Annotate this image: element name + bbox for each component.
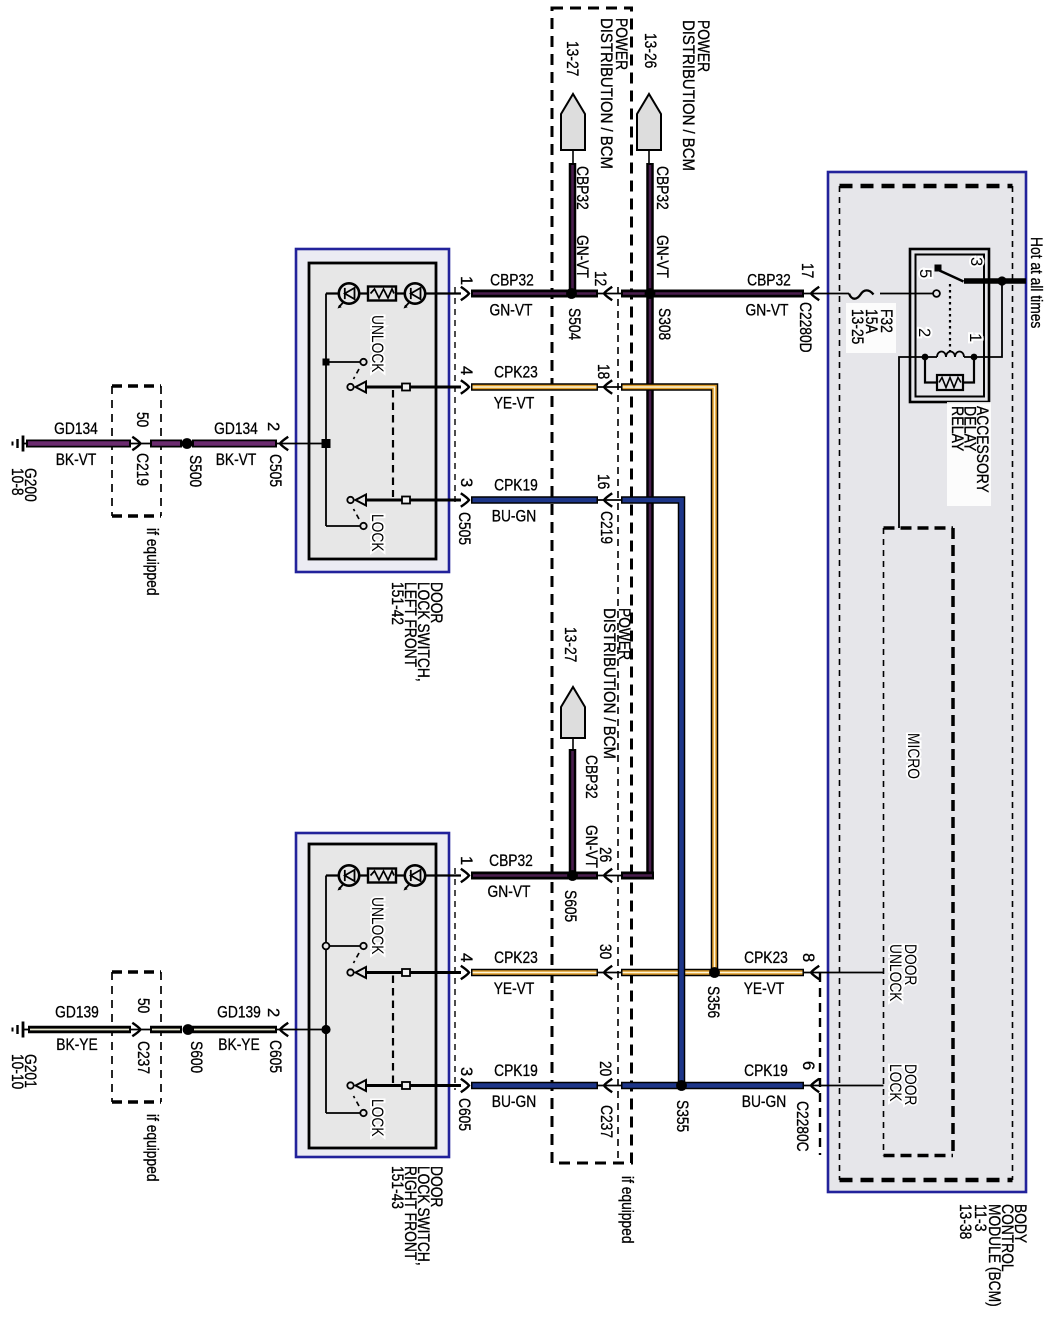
wire GD139 S600 to C605: [192, 1026, 277, 1034]
svg-text:YE-VT: YE-VT: [494, 980, 535, 998]
connector C605 pin 4 arrow: [461, 966, 469, 980]
svg-text:3: 3: [967, 257, 985, 266]
wire CBP32 pentagon 13-26 through S308 to elbow: [646, 163, 654, 876]
svg-text:CBP32: CBP32: [490, 272, 534, 290]
connector C237 pin 30 arrow: [604, 966, 612, 980]
wire GD134 C219 to S500: [150, 440, 182, 448]
wire at connector 12: [596, 293, 624, 295]
svg-text:C505: C505: [266, 454, 284, 487]
svg-text:DISTRIBUTION / BCM: DISTRIBUTION / BCM: [679, 20, 697, 171]
node S308: [645, 288, 656, 299]
svg-text:13-26: 13-26: [641, 33, 659, 68]
connector C2280D pin 17 arrow: [811, 287, 819, 301]
svg-text:S308: S308: [655, 308, 673, 340]
svg-text:50: 50: [134, 998, 152, 1013]
C237 if-equipped dashed box: [112, 970, 161, 973]
svg-text:13-27: 13-27: [561, 627, 579, 662]
svg-text:BK-YE: BK-YE: [56, 1036, 97, 1054]
connector C2280C pin 6 arrow: [811, 1079, 819, 1093]
svg-text:CBP32: CBP32: [573, 166, 591, 210]
relay resistor parallel: [925, 357, 937, 383]
wire CBP32 pentagon 13-27 to S504: [569, 163, 577, 293]
svg-text:S504: S504: [565, 308, 583, 340]
ground G200: [13, 436, 24, 452]
svg-text:S605: S605: [561, 890, 579, 922]
wire CPK19 switch2 pin3 to arrow20: [471, 1082, 598, 1090]
wire at connector 16 C219: [596, 499, 624, 501]
wire at connector C237 pin 50: [128, 1029, 152, 1031]
unlock moving contact switch2: [347, 969, 353, 975]
svg-text:18: 18: [594, 364, 612, 379]
wire junction to relay coil pin1: [974, 281, 1002, 357]
svg-text:RELAY: RELAY: [948, 406, 966, 451]
mechanical link switch1: [392, 390, 394, 497]
wire GD139 ground to C237: [28, 1026, 131, 1034]
svg-text:DISTRIBUTION / BCM: DISTRIBUTION / BCM: [597, 18, 615, 169]
svg-text:10-8: 10-8: [8, 468, 26, 496]
svg-text:CPK19: CPK19: [494, 1062, 538, 1080]
svg-text:GD134: GD134: [54, 420, 98, 438]
svg-text:2: 2: [264, 1008, 282, 1017]
lock moving contact switch2: [347, 1082, 353, 1088]
svg-text:4: 4: [457, 953, 475, 962]
connector C237 pin 26 arrow: [604, 869, 612, 883]
svg-text:13-25: 13-25: [848, 309, 866, 344]
wire CBP32 bus arrow12 to C2280D: [621, 290, 804, 298]
svg-text:CPK19: CPK19: [744, 1062, 788, 1080]
svg-text:C237: C237: [597, 1105, 615, 1138]
wire CPK23 switch2 pin4 to arrow30: [471, 969, 598, 977]
svg-text:1: 1: [457, 856, 475, 865]
wire CBP32 bus switch1 to arrow12: [471, 290, 598, 298]
connector C505 pin 3 arrow: [461, 493, 469, 507]
svg-text:16: 16: [594, 474, 612, 489]
svg-text:3: 3: [457, 478, 475, 487]
wire at connector 30: [596, 972, 624, 974]
node S600: [183, 1024, 194, 1035]
wire door unlock to micro: [804, 972, 884, 974]
svg-text:30: 30: [596, 944, 614, 959]
relay label background: [947, 402, 991, 506]
unlock fixed contact switch1: [323, 359, 330, 366]
BCM inner dashed boundary: [840, 184, 1013, 189]
wire at connector 20 C237: [596, 1085, 624, 1087]
lock moving contact switch1: [347, 497, 353, 503]
wire pentagon 13-26 stub: [648, 150, 650, 163]
connector C219 pin 12 arrow: [604, 287, 612, 301]
svg-text:LOCK: LOCK: [368, 514, 386, 552]
wire at connector C505 pin 2: [275, 443, 296, 445]
C2280C connector dashed line: [819, 973, 821, 1155]
C219 if-equipped dashed box: [112, 384, 161, 387]
wire at connector C605 pin 2: [275, 1029, 296, 1031]
svg-text:12: 12: [591, 271, 609, 286]
wire to ground G200: [23, 443, 30, 445]
svg-text:BK-VT: BK-VT: [56, 451, 97, 469]
wire hot at all times: [964, 278, 1026, 284]
svg-text:26: 26: [596, 847, 614, 862]
resistor switch2: [368, 869, 396, 883]
wire at connector 26: [596, 875, 624, 877]
wire GD134 ground to C219: [26, 440, 131, 448]
svg-text:C605: C605: [266, 1040, 284, 1073]
resistor switch1: [368, 287, 396, 301]
connector C605 pin 3 arrow: [461, 1079, 469, 1093]
svg-text:10-10: 10-10: [8, 1054, 26, 1089]
wire CBP32 arrow26 to elbow: [621, 872, 654, 880]
svg-text:CBP32: CBP32: [489, 852, 533, 870]
node S504: [566, 288, 577, 299]
connector C237 pin 20 arrow: [604, 1079, 612, 1093]
lamp left switch1: [338, 283, 360, 308]
svg-text:CPK19: CPK19: [494, 477, 538, 495]
svg-text:YE-VT: YE-VT: [494, 395, 535, 413]
svg-text:BU-GN: BU-GN: [492, 1093, 537, 1111]
C605 connector dashed line: [454, 868, 456, 1090]
wire C2280D to fuse F32: [804, 293, 849, 295]
off-page connector pentagon 13-26: [637, 94, 661, 150]
svg-text:2: 2: [264, 422, 282, 431]
unlock fixed contact switch2: [323, 943, 330, 950]
connector C237 pin 50 arrow: [132, 1023, 140, 1037]
svg-text:C2280D: C2280D: [796, 302, 814, 353]
C505 connector dashed line: [454, 287, 456, 502]
svg-text:151-43: 151-43: [388, 1166, 406, 1209]
svg-text:151-42: 151-42: [388, 582, 406, 625]
wire unlock out switch1: [366, 386, 461, 389]
node S356: [709, 967, 720, 978]
wire lock out switch2: [366, 1084, 461, 1087]
svg-text:2: 2: [915, 328, 933, 337]
lamp right switch2: [404, 865, 426, 890]
wire GD139 C237 to S600: [150, 1026, 182, 1034]
svg-text:1: 1: [457, 276, 475, 285]
door lock switch right front box: [296, 833, 449, 1157]
svg-text:UNLOCK: UNLOCK: [368, 897, 386, 955]
svg-text:6: 6: [799, 1061, 817, 1070]
connector C505 pin 4 arrow: [461, 380, 469, 394]
svg-text:C605: C605: [455, 1098, 473, 1131]
svg-text:Hot at all times: Hot at all times: [1027, 237, 1045, 328]
wire unlock out switch2: [366, 971, 461, 974]
off-page connector pentagon 13-27 top: [561, 94, 585, 150]
accessory delay relay box: [910, 249, 989, 402]
svg-text:YE-VT: YE-VT: [744, 980, 785, 998]
connector C605 pin 1 arrow: [461, 869, 469, 883]
fuse F32: [849, 290, 874, 298]
svg-text:17: 17: [798, 263, 816, 278]
svg-text:C237: C237: [134, 1041, 152, 1074]
svg-text:UNLOCK: UNLOCK: [886, 944, 904, 1002]
svg-text:BK-VT: BK-VT: [216, 451, 257, 469]
lamp left switch2: [338, 865, 360, 890]
connector C219 pin 16 arrow: [604, 493, 612, 507]
node S355: [676, 1080, 687, 1091]
svg-text:GN-VT: GN-VT: [746, 302, 789, 320]
door lock switch left front box: [296, 249, 449, 572]
wire CBP32 pentagon middle to S605: [569, 749, 577, 875]
svg-text:1: 1: [966, 333, 984, 342]
svg-text:UNLOCK: UNLOCK: [368, 315, 386, 373]
connector C219 pin 50 arrow: [132, 437, 140, 451]
svg-text:GN-VT: GN-VT: [490, 302, 533, 320]
relay coil: [925, 356, 937, 358]
svg-text:C219: C219: [597, 511, 615, 544]
ground G201: [13, 1022, 24, 1038]
node pin2 junction switch2: [296, 1029, 326, 1031]
svg-text:4: 4: [457, 366, 475, 375]
wire CPK19 arrow20 to C2280C pin6: [621, 1082, 804, 1090]
svg-text:13-27: 13-27: [563, 41, 581, 76]
svg-text:LOCK: LOCK: [886, 1064, 904, 1102]
svg-text:C505: C505: [455, 512, 473, 545]
node hot junction: [997, 276, 1006, 285]
wire door lock to micro: [804, 1085, 884, 1087]
svg-text:GD139: GD139: [55, 1004, 99, 1022]
svg-text:if equipped: if equipped: [618, 1176, 636, 1244]
wire to ground G201: [23, 1029, 30, 1031]
unlock moving contact switch1: [347, 384, 353, 390]
node S500: [182, 438, 193, 449]
svg-text:GD134: GD134: [214, 420, 258, 438]
svg-text:CBP32: CBP32: [582, 755, 600, 799]
svg-text:CPK23: CPK23: [494, 364, 538, 382]
svg-text:C219: C219: [133, 453, 151, 486]
svg-text:8: 8: [799, 953, 817, 962]
wire CBP32 switch2 pin1 to arrow26: [471, 872, 598, 880]
svg-text:LOCK: LOCK: [368, 1099, 386, 1137]
svg-text:3: 3: [457, 1067, 475, 1076]
svg-text:BU-GN: BU-GN: [492, 508, 537, 526]
switch2 internals: [326, 874, 461, 876]
svg-text:13-38: 13-38: [956, 1204, 974, 1239]
svg-text:S500: S500: [186, 455, 204, 487]
svg-text:50: 50: [133, 412, 151, 427]
off-page connector pentagon 13-27 middle: [561, 687, 585, 738]
wire CPK19 arrow16 elbow down to S355: [621, 500, 682, 1086]
lamp right switch1: [404, 283, 426, 308]
relay switch blade pin3: [940, 271, 964, 282]
wire CPK19 switch1 pin3 to arrow16: [471, 496, 598, 504]
wire pentagon 13-27 middle stub: [572, 738, 574, 749]
svg-text:CPK23: CPK23: [494, 949, 538, 967]
connector C2280C pin 8 arrow: [811, 966, 819, 980]
wire relay pin2 to micro: [899, 357, 925, 528]
svg-text:CBP32: CBP32: [653, 166, 671, 210]
connector C605 pin 2 arrow: [280, 1023, 288, 1037]
node pin2 junction switch1: [296, 443, 326, 445]
connector C219 pin 18 arrow: [604, 380, 612, 394]
svg-text:GN-VT: GN-VT: [488, 883, 531, 901]
body control module BCM box: [828, 172, 1026, 1192]
connector C505 pin 2 arrow: [280, 437, 288, 451]
wire CPK23 switch1 pin4 to arrow18: [471, 383, 598, 391]
svg-text:5: 5: [916, 269, 934, 278]
relay pin5 contact: [933, 290, 940, 297]
wire CPK23 S356 to C2280C pin8: [621, 969, 804, 977]
switch1 internals: [326, 292, 461, 294]
fuse F32 label background: [846, 303, 896, 353]
mechanical link switch2: [392, 976, 394, 1084]
node S605: [567, 870, 578, 881]
svg-text:CBP32: CBP32: [747, 272, 791, 290]
C219 connector dashed line: [617, 287, 619, 1163]
wire fuse F32 to relay pin 5: [880, 293, 933, 295]
wire CPK23 arrow18 elbow down to S356: [621, 387, 715, 973]
lock fixed contact switch1: [326, 525, 360, 527]
svg-text:20: 20: [596, 1061, 614, 1076]
connector C505 pin 1 arrow: [461, 287, 469, 301]
svg-text:if equipped: if equipped: [143, 1114, 161, 1182]
svg-text:BK-YE: BK-YE: [218, 1036, 259, 1054]
wire lock out switch1: [366, 499, 461, 502]
svg-text:S600: S600: [187, 1041, 205, 1073]
power distribution dashed box: [552, 8, 632, 1163]
wire GD134 S500 to C505: [192, 440, 277, 448]
wire at connector C219 pin 50: [128, 443, 152, 445]
svg-text:if equipped: if equipped: [143, 528, 161, 596]
relay mechanical link dotted: [949, 284, 951, 352]
svg-text:C2280C: C2280C: [793, 1101, 811, 1152]
svg-text:GN-VT: GN-VT: [573, 235, 591, 278]
svg-text:MICRO: MICRO: [904, 733, 922, 779]
svg-text:S356: S356: [704, 986, 722, 1018]
svg-text:CPK23: CPK23: [744, 949, 788, 967]
MICRO dashed box: [884, 526, 954, 530]
wire pentagon 13-27 stub: [572, 150, 574, 163]
lock fixed contact switch2: [326, 1112, 360, 1114]
svg-text:BU-GN: BU-GN: [742, 1093, 787, 1111]
svg-text:S355: S355: [673, 1100, 691, 1132]
svg-text:DISTRIBUTION / BCM: DISTRIBUTION / BCM: [600, 608, 618, 759]
svg-text:GN-VT: GN-VT: [653, 235, 671, 278]
svg-text:GD139: GD139: [217, 1004, 261, 1022]
wire at connector 18: [596, 386, 624, 388]
